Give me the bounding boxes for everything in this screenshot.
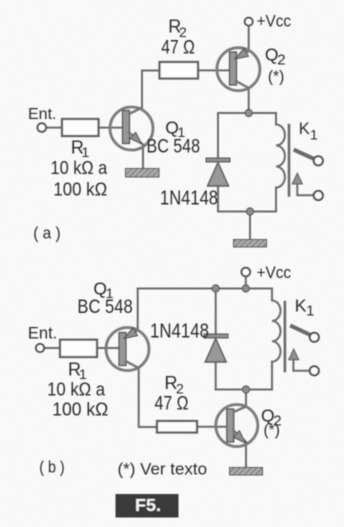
svg-text:47 Ω: 47 Ω bbox=[161, 38, 195, 59]
svg-text:( a ): ( a ) bbox=[33, 225, 61, 243]
svg-text:Ent.: Ent. bbox=[28, 106, 56, 123]
svg-text:(*): (*) bbox=[264, 422, 280, 439]
svg-text:Ent.: Ent. bbox=[28, 325, 57, 343]
svg-text:BC 548: BC 548 bbox=[147, 137, 201, 158]
svg-text:F5.: F5. bbox=[135, 495, 161, 515]
svg-text:1N4148: 1N4148 bbox=[150, 321, 209, 343]
svg-text:100 kΩ: 100 kΩ bbox=[53, 180, 107, 200]
svg-text:(*): (*) bbox=[268, 69, 284, 86]
svg-text:+Vcc: +Vcc bbox=[257, 12, 292, 31]
svg-text:10 kΩ a: 10 kΩ a bbox=[47, 379, 106, 399]
svg-text:10 kΩ a: 10 kΩ a bbox=[51, 158, 109, 178]
svg-text:(*) Ver texto: (*) Ver texto bbox=[118, 460, 208, 479]
svg-text:1: 1 bbox=[306, 304, 314, 320]
svg-text:100 kΩ: 100 kΩ bbox=[52, 399, 108, 419]
svg-text:1: 1 bbox=[310, 126, 318, 142]
svg-text:1N4148: 1N4148 bbox=[160, 188, 218, 210]
svg-text:BC 548: BC 548 bbox=[77, 297, 132, 318]
svg-text:+Vcc: +Vcc bbox=[257, 263, 292, 282]
svg-text:47 Ω: 47 Ω bbox=[155, 394, 189, 415]
svg-text:K: K bbox=[299, 120, 310, 138]
svg-text:2: 2 bbox=[277, 51, 285, 68]
svg-text:K: K bbox=[295, 295, 307, 315]
svg-text:( b ): ( b ) bbox=[39, 459, 64, 477]
